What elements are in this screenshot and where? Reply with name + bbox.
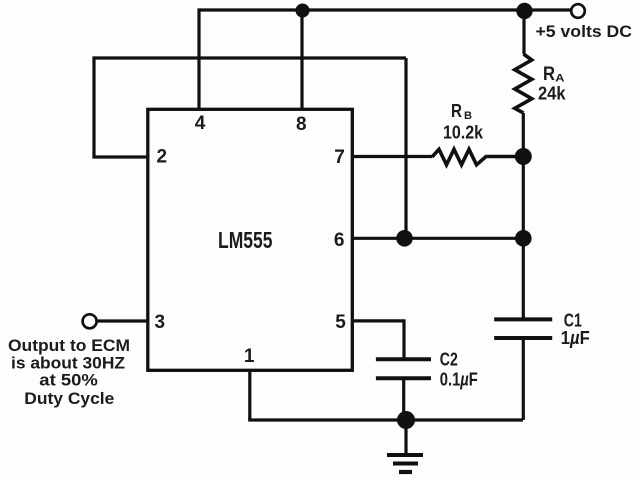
svg-text:10.2k: 10.2k (443, 123, 484, 143)
svg-text:4: 4 (195, 113, 206, 134)
svg-text:5: 5 (335, 312, 346, 333)
svg-text:6: 6 (334, 230, 345, 251)
svg-text:1µF: 1µF (561, 328, 590, 348)
svg-text:Duty Cycle: Duty Cycle (24, 390, 114, 408)
svg-text:LM555: LM555 (218, 227, 273, 253)
svg-text:1: 1 (244, 346, 255, 367)
svg-text:at 50%: at 50% (39, 372, 98, 390)
svg-text:+5 volts DC: +5 volts DC (536, 23, 633, 41)
svg-text:R: R (451, 100, 462, 121)
svg-text:Output to ECM: Output to ECM (8, 337, 130, 355)
svg-text:24k: 24k (538, 83, 566, 104)
svg-text:2: 2 (157, 146, 168, 167)
svg-text:3: 3 (155, 312, 166, 333)
svg-text:0.1µF: 0.1µF (440, 370, 478, 390)
svg-text:B: B (464, 110, 472, 122)
svg-text:7: 7 (334, 147, 345, 168)
svg-text:is about 30HZ: is about 30HZ (11, 354, 125, 372)
svg-text:C2: C2 (440, 350, 458, 370)
svg-text:8: 8 (296, 114, 307, 135)
